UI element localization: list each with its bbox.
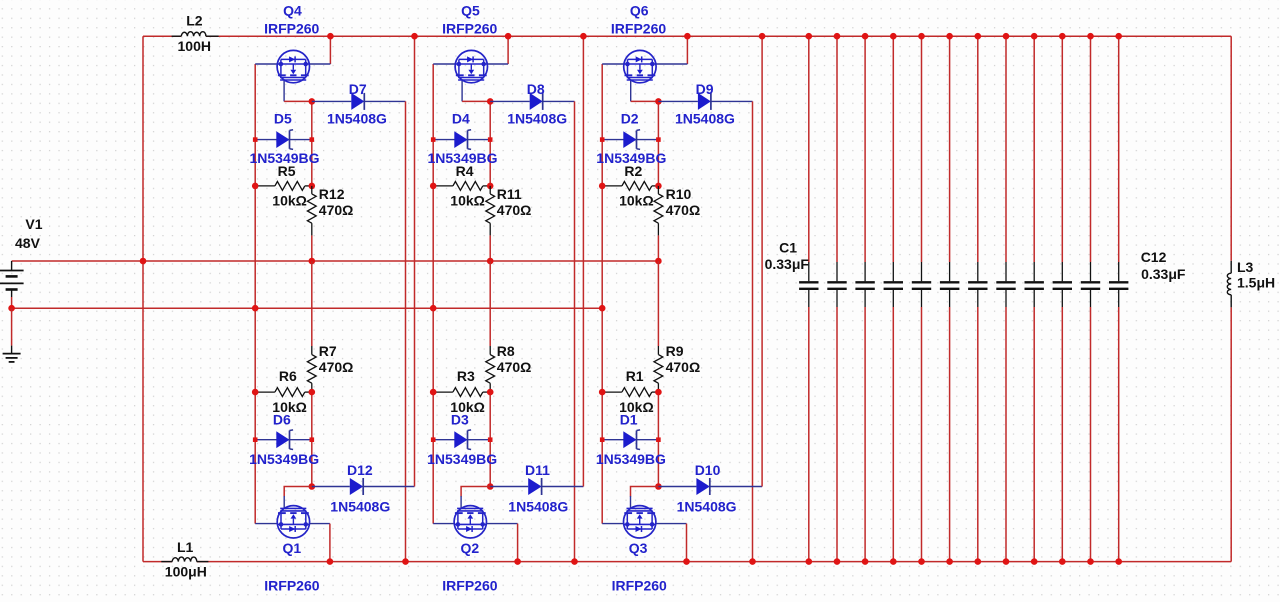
svg-text:D2: D2 [621, 110, 639, 126]
node C12 / top bus junction [1115, 33, 1122, 40]
wire source pin down from Q6 IRFP260 [630, 80, 632, 101]
ground [3, 353, 21, 355]
wire gate stub top (blue) [255, 63, 277, 65]
wire source stub bottom (blue) [309, 523, 330, 525]
svg-text:100μH: 100μH [165, 564, 207, 580]
svg-text:470Ω: 470Ω [497, 359, 532, 375]
wire D7 cathode to bottom bus [405, 101, 407, 561]
wire top bus [143, 35, 181, 37]
node C9 / top bus junction [1031, 33, 1038, 40]
wire mid rail phase 3 upper [657, 101, 659, 185]
svg-text:1N5408G: 1N5408G [507, 111, 567, 127]
svg-text:Q1: Q1 [283, 540, 302, 556]
diode D9 [658, 100, 698, 102]
wire mid rail below V+ bus [311, 261, 313, 346]
svg-text:IRFP260: IRFP260 [442, 577, 497, 593]
wire mid rail below V+ bus [489, 261, 491, 346]
capacitor C3 0.33uF [864, 36, 866, 262]
wire D9 cathode to bottom bus [752, 101, 754, 561]
diode D12 [312, 486, 350, 488]
capacitor C6 0.33uF [949, 36, 951, 262]
wire gate stub bottom (blue) [255, 523, 277, 525]
capacitor C11 0.33uF [1090, 36, 1092, 262]
svg-text:Q4: Q4 [283, 3, 302, 19]
transistor Q2 IRFP260 [454, 506, 486, 538]
svg-text:D10: D10 [695, 462, 721, 478]
svg-text:C12: C12 [1141, 249, 1167, 265]
resistor R2 10k [602, 185, 622, 187]
svg-text:1N5349BG: 1N5349BG [427, 451, 497, 467]
capacitor C12 0.33uF [1118, 36, 1120, 262]
zener diode D1 [602, 439, 658, 441]
svg-text:D7: D7 [349, 81, 367, 97]
node B phase 3 [655, 483, 662, 490]
svg-text:V1: V1 [25, 216, 42, 232]
wire mid rail lower [311, 392, 313, 486]
node C11 / bottom bus junction [1087, 558, 1094, 565]
capacitor C2 0.33uF [836, 36, 838, 262]
svg-text:IRFP260: IRFP260 [264, 20, 319, 36]
svg-text:1N5349BG: 1N5349BG [249, 451, 319, 467]
node A phase 3 [655, 98, 662, 105]
node gate rail / V- bus junction [430, 305, 437, 312]
wire mid rail R12 lead to V+ bus [657, 235, 659, 261]
node source Q2 IRFP260 / bottom bus junction [514, 558, 521, 565]
node gate rail / V- bus junction [599, 305, 606, 312]
svg-text:0.33μF: 0.33μF [1141, 266, 1186, 282]
node drain feed / top bus junction [684, 33, 691, 40]
node C1 / top bus junction [806, 33, 813, 40]
svg-text:D6: D6 [273, 411, 291, 427]
capacitor C4 0.33uF [892, 36, 894, 262]
svg-text:1N5349BG: 1N5349BG [596, 451, 666, 467]
resistor R11 470 [489, 186, 491, 194]
capacitor C5 0.33uF [921, 36, 923, 262]
svg-text:C1: C1 [779, 239, 797, 255]
transistor Q6 IRFP260 [624, 50, 656, 82]
svg-text:IRFP260: IRFP260 [442, 20, 497, 36]
wire gate stub top (blue) [433, 63, 455, 65]
svg-text:48V: 48V [15, 235, 41, 251]
wire source pin down from Q4 IRFP260 [283, 80, 285, 101]
diode D11 [490, 486, 528, 488]
svg-text:R3: R3 [457, 368, 475, 384]
svg-text:0.33μF: 0.33μF [765, 256, 810, 272]
wire source of Q2 IRFP260 to bottom bus [517, 524, 519, 562]
transistor Q5 IRFP260 [455, 50, 487, 82]
svg-text:470Ω: 470Ω [666, 202, 701, 218]
wire gate stub bottom (blue) [433, 523, 454, 525]
capacitor C8 0.33uF [1005, 36, 1007, 262]
node B phase 2 [487, 483, 494, 490]
svg-text:Q5: Q5 [461, 3, 480, 19]
svg-text:R6: R6 [279, 368, 297, 384]
svg-text:10kΩ: 10kΩ [619, 192, 654, 208]
wire drain feed phase 1 [329, 36, 331, 64]
node D9 output / bottom bus junction [749, 558, 756, 565]
resistor R3 10k [433, 391, 453, 393]
wire bus V- (battery negative) [12, 307, 603, 309]
svg-text:R10: R10 [666, 186, 692, 202]
svg-text:R4: R4 [456, 163, 474, 179]
resistor R1 10k [602, 391, 622, 393]
resistor R4 10k [433, 185, 453, 187]
resistor R8 470 [489, 346, 491, 355]
zener diode D5 [255, 139, 312, 141]
wire source stub bottom (blue) [486, 523, 517, 525]
node C4 / bottom bus junction [890, 558, 897, 565]
svg-text:R5: R5 [278, 163, 296, 179]
node C9 / bottom bus junction [1031, 558, 1038, 565]
svg-text:1N5408G: 1N5408G [330, 499, 390, 515]
svg-text:1N5408G: 1N5408G [508, 499, 568, 515]
node C1 / bottom bus junction [806, 558, 813, 565]
node D7 output / bottom bus junction [402, 558, 409, 565]
transistor Q1 IRFP260 [277, 506, 309, 538]
node D10 output / top bus junction [759, 33, 766, 40]
node C6 / bottom bus junction [946, 558, 953, 565]
svg-text:L2: L2 [186, 13, 203, 29]
wire bottom bus [143, 561, 172, 563]
node D8 output / bottom bus junction [571, 558, 578, 565]
diode D8 [490, 100, 530, 102]
node D12 output / top bus junction [411, 33, 418, 40]
capacitor C10 0.33uF [1061, 36, 1063, 262]
transistor Q3 IRFP260 [624, 506, 656, 538]
svg-text:Q3: Q3 [629, 540, 648, 556]
svg-text:470Ω: 470Ω [666, 359, 701, 375]
svg-text:R2: R2 [624, 163, 642, 179]
zener diode D2 [602, 139, 658, 141]
node D11 output / top bus junction [580, 33, 587, 40]
wire source to node A phase 3 [631, 100, 659, 102]
resistor R7 470 [311, 346, 313, 355]
node B phase 1 [309, 483, 316, 490]
capacitor C7 0.33uF [977, 36, 979, 262]
svg-text:IRFP260: IRFP260 [612, 577, 667, 593]
node C8 / top bus junction [1003, 33, 1010, 40]
svg-text:R11: R11 [497, 186, 522, 202]
wire source to node A phase 2 [462, 100, 490, 102]
svg-text:10kΩ: 10kΩ [272, 192, 307, 208]
zener diode D6 [255, 439, 312, 441]
diode D10 [658, 486, 696, 488]
svg-text:D5: D5 [274, 110, 292, 126]
node C4 / top bus junction [890, 33, 897, 40]
resistor R10 470 [657, 186, 659, 194]
wire mid rail R12 lead to V+ bus [489, 235, 491, 261]
wire drain of Q3 IRFP260 from node B [631, 487, 659, 497]
svg-text:470Ω: 470Ω [497, 202, 532, 218]
svg-text:L3: L3 [1237, 259, 1254, 275]
resistor R6 10k [255, 391, 275, 393]
node C5 / top bus junction [918, 33, 925, 40]
inductor L3 [1230, 261, 1232, 273]
svg-text:D8: D8 [527, 81, 545, 97]
wire battery to ground [11, 308, 13, 345]
svg-text:R9: R9 [666, 343, 684, 359]
node A phase 2 [487, 98, 494, 105]
node C3 / top bus junction [862, 33, 869, 40]
svg-text:R12: R12 [319, 186, 345, 202]
svg-text:IRFP260: IRFP260 [611, 20, 666, 36]
wire gate stub bottom (blue) [602, 523, 624, 525]
wire gate rail phase 3 [601, 64, 603, 524]
node C11 / top bus junction [1087, 33, 1094, 40]
svg-text:D4: D4 [452, 110, 470, 126]
resistor R12 470 [311, 186, 313, 194]
wire source of Q3 IRFP260 to bottom bus [686, 524, 688, 562]
svg-text:100H: 100H [178, 38, 211, 54]
wire source pin down from Q5 IRFP260 [461, 80, 463, 101]
svg-text:1N5408G: 1N5408G [677, 499, 737, 515]
node gate rail / V- bus junction [252, 305, 259, 312]
wire gate rail phase 1 [254, 64, 256, 524]
wire mid rail R12 lead to V+ bus [311, 235, 313, 261]
svg-text:1N5408G: 1N5408G [327, 111, 387, 127]
svg-text:L1: L1 [177, 539, 194, 555]
svg-text:D9: D9 [696, 81, 714, 97]
wire source of Q1 IRFP260 to bottom bus [329, 524, 331, 562]
node drain feed / top bus junction [505, 33, 512, 40]
wire drain feed phase 3 [686, 36, 688, 64]
svg-text:Q2: Q2 [461, 540, 480, 556]
svg-text:Q6: Q6 [630, 3, 649, 19]
node source Q1 IRFP260 / bottom bus junction [327, 558, 334, 565]
wire drain of Q2 IRFP260 from node B [461, 487, 490, 497]
svg-text:10kΩ: 10kΩ [450, 192, 485, 208]
node C3 / bottom bus junction [862, 558, 869, 565]
svg-text:470Ω: 470Ω [319, 202, 354, 218]
wire left rail [142, 36, 144, 561]
node C5 / bottom bus junction [918, 558, 925, 565]
node C12 / bottom bus junction [1115, 558, 1122, 565]
capacitor C9 0.33uF [1033, 36, 1035, 262]
node C10 / top bus junction [1059, 33, 1066, 40]
svg-text:D3: D3 [451, 411, 469, 427]
svg-text:D1: D1 [620, 411, 638, 427]
svg-text:1N5408G: 1N5408G [675, 111, 735, 127]
node C7 / top bus junction [975, 33, 982, 40]
resistor R9 470 [657, 346, 659, 355]
node C8 / bottom bus junction [1003, 558, 1010, 565]
node source Q3 IRFP260 / bottom bus junction [683, 558, 690, 565]
svg-text:R7: R7 [319, 343, 337, 359]
svg-text:D11: D11 [525, 462, 550, 478]
node C2 / bottom bus junction [834, 558, 841, 565]
node C6 / top bus junction [946, 33, 953, 40]
wire drain of Q1 IRFP260 from node B [284, 487, 312, 497]
wire gate stub top (blue) [602, 63, 624, 65]
inductor L2 [172, 35, 182, 37]
node mid rail / V+ bus junction [309, 258, 316, 265]
wire drain feed phase 2 [507, 36, 509, 64]
node mid rail / V+ bus junction [655, 258, 662, 265]
wire drain stub top (blue) [487, 63, 508, 65]
wire D12 cathode to top bus [414, 36, 416, 486]
wire mid rail phase 2 upper [489, 101, 491, 185]
node A phase 1 [309, 98, 316, 105]
wire gate rail phase 2 [432, 64, 434, 524]
wire drain stub top (blue) [309, 63, 330, 65]
node bus1/left-rail junction [140, 258, 147, 265]
svg-text:R1: R1 [626, 368, 644, 384]
node battery negative junction [8, 305, 15, 312]
voltage source V1 [11, 261, 13, 271]
wire mid rail phase 1 upper [311, 101, 313, 185]
wire source to node A phase 1 [284, 100, 312, 102]
svg-text:1.5μH: 1.5μH [1237, 275, 1275, 291]
zener diode D4 [433, 139, 490, 141]
wire mid rail below V+ bus [657, 261, 659, 346]
wire drain stub top (blue) [656, 63, 688, 65]
wire source stub bottom (blue) [656, 523, 687, 525]
svg-text:R8: R8 [497, 343, 515, 359]
wire mid rail lower [489, 392, 491, 486]
wire right rail [1230, 36, 1232, 261]
svg-text:D12: D12 [347, 462, 373, 478]
node C2 / top bus junction [834, 33, 841, 40]
transistor Q4 IRFP260 [277, 50, 309, 82]
node C10 / bottom bus junction [1059, 558, 1066, 565]
svg-text:470Ω: 470Ω [319, 359, 354, 375]
capacitor C1 0.33uF [808, 36, 810, 262]
wire bus V+ (battery positive) [12, 260, 659, 262]
wire D10 cathode to top bus [761, 36, 763, 486]
wire D11 cathode to top bus [582, 36, 584, 486]
inductor L1 [161, 561, 172, 563]
zener diode D3 [433, 439, 490, 441]
diode D7 [312, 100, 352, 102]
node mid rail / V+ bus junction [487, 258, 494, 265]
wire mid rail lower [657, 392, 659, 486]
resistor R5 10k [255, 185, 275, 187]
node drain feed / top bus junction [327, 33, 334, 40]
svg-text:IRFP260: IRFP260 [264, 577, 319, 593]
node C7 / bottom bus junction [975, 558, 982, 565]
wire D8 cathode to bottom bus [574, 101, 576, 561]
